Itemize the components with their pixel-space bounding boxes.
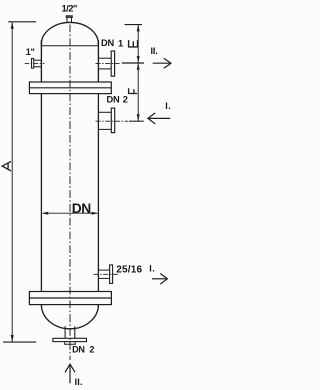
extension line at DN1 centerline	[122, 62, 144, 64]
nozzle N 1/2in on top of head	[66, 16, 72, 23]
dimension A: line	[11, 22, 14, 342]
girth flange pair (top)	[29, 82, 111, 94]
nozzle 1in left: pipe	[34, 60, 42, 67]
nozzle 25/16 right: flange	[110, 265, 113, 284]
svg-text:DN: DN	[101, 38, 115, 48]
bottom nozzle DN2: stub below flange	[65, 342, 76, 345]
svg-text:II.: II.	[75, 377, 83, 387]
nozzle DN2 centerline	[96, 120, 129, 122]
bottom dished head	[41, 305, 98, 329]
svg-text:I.: I.	[149, 264, 155, 274]
svg-text:1: 1	[118, 38, 123, 48]
nozzle DN2 right: flange	[111, 108, 114, 133]
bottom nozzle DN2: flange plate	[53, 338, 87, 341]
nozzle 1in left: flange	[32, 59, 34, 69]
label DN 2 (bottom)	[72, 344, 94, 354]
nozzle DN2 right: pipe	[98, 112, 111, 129]
svg-text:1": 1"	[26, 47, 35, 57]
svg-text:DN: DN	[107, 95, 121, 105]
dimension F line with arrowheads	[137, 63, 140, 121]
flow arrow I in (mid right)	[148, 113, 170, 124]
dimension E: extension line at top tangent	[125, 24, 143, 26]
svg-text:I.: I.	[165, 101, 171, 111]
label A (rotated)	[2, 161, 11, 171]
label DN 1	[101, 38, 123, 48]
svg-text:1/2": 1/2"	[62, 3, 77, 14]
upper shell (head skirt) walls	[41, 40, 98, 82]
svg-text:DN: DN	[72, 344, 85, 354]
dimension A: extension line top	[8, 21, 36, 23]
top head dome	[41, 22, 98, 45]
nozzle DN1 centerline	[96, 62, 120, 64]
svg-text:2: 2	[123, 95, 128, 105]
flow arrow I out (bottom right)	[152, 274, 167, 285]
nozzle 25/16 centerline	[94, 273, 120, 275]
label E (rotated)	[128, 40, 138, 47]
nozzle DN1 right: flange	[111, 51, 114, 76]
top head tangent weld line	[41, 45, 98, 47]
bottom nozzle DN2: pipe	[65, 326, 75, 338]
flow arrow II out (top right)	[153, 58, 171, 68]
vessel vertical centerline	[69, 25, 71, 361]
dimension DN (inner diameter)	[42, 201, 99, 216]
main shell walls	[41, 94, 98, 292]
flow arrow II in (bottom)	[65, 364, 75, 383]
label DN 2 (right)	[107, 95, 128, 105]
dimension A: extension line bottom	[3, 341, 36, 343]
svg-text:DN: DN	[72, 201, 92, 216]
svg-text:25/16: 25/16	[116, 264, 142, 275]
girth flange pair (bottom)	[29, 292, 111, 305]
dimension E line with arrowheads	[137, 25, 140, 63]
extension tick at DN2 centerline	[129, 120, 144, 122]
label F (rotated)	[128, 88, 137, 93]
nozzle DN1 right: pipe	[98, 58, 111, 69]
svg-text:II.: II.	[151, 46, 158, 56]
nozzle 25/16 right: pipe	[98, 270, 109, 278]
nozzle 1in centerline	[25, 62, 45, 64]
svg-text:2: 2	[89, 344, 94, 354]
